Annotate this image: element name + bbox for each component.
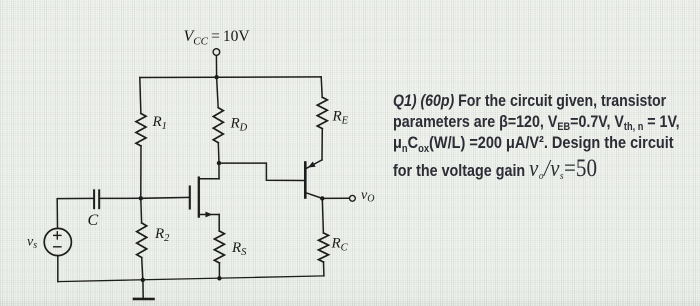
wire gate lead [141,196,190,199]
resistor R1 [136,114,146,147]
node Vcc rail junction [214,75,218,79]
wire bottom rail [58,276,324,282]
resistor RC [319,233,329,262]
capacitor C [94,190,99,208]
source vs [44,228,71,255]
wire drain node to base step [219,163,304,180]
svg-text:R2: R2 [154,226,170,244]
wire top rail [140,76,321,79]
wire cap to node [99,197,141,199]
svg-text:RD: RD [230,116,248,134]
resistor R2 [137,223,147,258]
svg-text:vs: vs [27,235,37,252]
wire RD bottom to drain node [217,143,220,163]
node gate bias [139,196,143,200]
wire collector to output [322,197,349,199]
svg-text:vO: vO [361,188,374,205]
svg-text:RE: RE [332,109,349,127]
wire vs top [57,198,94,228]
node RS ground [217,276,221,280]
svg-text:VCC = 10V: VCC = 10V [184,28,251,48]
wire node to R2 [140,198,143,223]
svg-text:R1: R1 [152,114,167,132]
wire RC bottom [323,262,325,276]
wire R2 bottom [142,258,143,280]
resistor RD [213,108,223,143]
wire RE bottom to emitter [321,129,323,160]
wire RS bottom [218,263,220,278]
wire R1 top [140,78,141,114]
wire vs bottom [57,256,59,282]
svg-text:RS: RS [231,240,247,258]
wire RE top [321,77,322,97]
wire Vcc stem [215,55,217,77]
resistor RS [214,231,224,263]
node ground junction [141,278,145,282]
terminal Vcc [213,49,220,56]
resistor RE [317,97,327,128]
svg-text:RC: RC [331,236,349,254]
node collector [320,196,324,200]
ground [134,280,154,299]
node drain [217,161,221,165]
wire RD top [217,77,219,108]
svg-text:C: C [88,212,99,229]
wire R1 bottom to node [140,146,142,198]
transistor Q1 pnp [305,160,322,199]
wire collector to RC [322,198,323,233]
transistor Q2 nmos [190,163,219,231]
terminal vo [350,195,356,201]
